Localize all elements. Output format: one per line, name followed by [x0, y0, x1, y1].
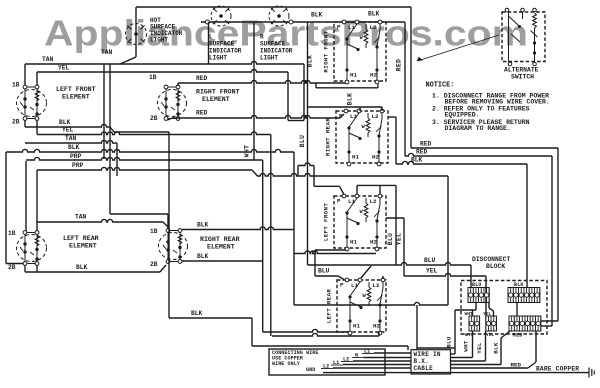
wire RED upper: [411, 148, 558, 321]
wire WHT vertical: [253, 22, 255, 160]
label left rear element: [63, 235, 99, 250]
wire left front H1 drop: [315, 250, 346, 280]
svg-text:BLU: BLU: [299, 135, 306, 147]
wire mid bottom bus: [294, 302, 448, 305]
indicator light DS2 left surface: [211, 6, 231, 26]
wire left rear L2 stub: [382, 276, 384, 279]
label disconnect block: [472, 256, 511, 270]
svg-text:BLK: BLK: [411, 157, 423, 164]
ground symbol: [589, 368, 594, 378]
svg-text:1B: 1B: [8, 230, 16, 237]
wire riser to left front switch: [298, 163, 314, 186]
label left front element: [56, 86, 96, 101]
svg-text:YEL: YEL: [426, 268, 438, 275]
wire YEL down to BX: [451, 331, 486, 361]
svg-text:P: P: [337, 24, 341, 31]
svg-text:RIGHT REAR: RIGHT REAR: [200, 236, 240, 243]
wire BLK L1 feed right rear: [308, 107, 383, 111]
wire RED right front 1B: [178, 80, 378, 87]
svg-text:H2: H2: [370, 72, 377, 79]
svg-text:BLK: BLK: [493, 342, 500, 354]
svg-text:SURFACE: SURFACE: [260, 41, 286, 48]
svg-text:L: L: [209, 34, 213, 41]
svg-text:RED: RED: [396, 59, 403, 71]
svg-text:ELEMENT: ELEMENT: [207, 244, 235, 251]
svg-text:ELEMENT: ELEMENT: [62, 94, 90, 101]
wire BLU strip to YEL strip: [489, 303, 494, 317]
svg-text:LIGHT: LIGHT: [209, 55, 227, 62]
svg-text:YEL: YEL: [58, 65, 70, 72]
terminal strip BLU: [468, 288, 489, 303]
svg-text:2B: 2B: [150, 115, 158, 122]
svg-text:BLOCK: BLOCK: [486, 263, 505, 270]
wire BLU bus: [308, 262, 472, 287]
svg-text:LIGHT: LIGHT: [150, 37, 168, 44]
label L1 b: [331, 360, 343, 366]
wire lights-bus drop to RED: [404, 22, 406, 156]
disconnect block outline dashed: [461, 281, 547, 335]
wire left rear 2B drops: [25, 265, 166, 272]
svg-text:H1: H1: [350, 239, 357, 246]
svg-text:L2: L2: [370, 198, 377, 205]
svg-text:BLK: BLK: [191, 310, 203, 317]
wire YEL right of left front switch: [386, 218, 404, 276]
svg-text:TAN: TAN: [101, 49, 113, 56]
label alternate switch: [504, 67, 539, 81]
wire BLU right of left front switch: [395, 185, 397, 265]
hot light feed wire: [120, 7, 136, 64]
wire left rear H1 wire: [263, 329, 349, 332]
wire YEL bus top: [37, 69, 304, 120]
switch alternate dashed box: [502, 8, 545, 66]
label L1 a: [362, 349, 374, 355]
wire left front H2 drop: [294, 251, 376, 254]
svg-text:BLK: BLK: [59, 119, 71, 126]
label right surface indicator light: [260, 34, 293, 62]
svg-text:LIGHT: LIGHT: [260, 55, 278, 62]
svg-text:LEFT REAR: LEFT REAR: [63, 235, 99, 242]
svg-text:ALTERNATE: ALTERNATE: [504, 67, 539, 74]
svg-text:BLK: BLK: [311, 12, 323, 19]
element right rear: [159, 229, 188, 264]
svg-text:TAN: TAN: [42, 56, 54, 63]
svg-text:H1: H1: [350, 72, 357, 79]
wire TAN rear: [37, 219, 168, 229]
wire vertical v104: [103, 64, 105, 159]
wire BLK down to BX: [451, 331, 511, 365]
svg-text:RED: RED: [196, 75, 208, 82]
svg-text:L2: L2: [372, 113, 379, 120]
terminal strip WHT: [469, 316, 480, 331]
svg-text:LEFT REAR: LEFT REAR: [326, 289, 333, 324]
element left front: [17, 85, 47, 120]
svg-text:CABLE: CABLE: [414, 365, 434, 372]
wire YEL bus: [404, 273, 486, 316]
label left surface indicator light: [209, 34, 242, 62]
svg-text:BLU: BLU: [446, 336, 453, 348]
wire BLK right rear 1B: [182, 227, 294, 230]
svg-text:GND: GND: [306, 367, 315, 373]
svg-text:ELEMENT: ELEMENT: [202, 96, 230, 103]
wire left rear L1 diag feed: [361, 266, 371, 278]
svg-text:RED: RED: [420, 141, 432, 148]
svg-text:L2: L2: [373, 282, 380, 289]
switch left rear infinite switch: [326, 278, 387, 335]
svg-text:H2: H2: [373, 323, 380, 330]
wire bus y176: [258, 173, 448, 305]
wire TAN bus top: [25, 61, 304, 120]
svg-text:BLK: BLK: [307, 55, 314, 67]
svg-text:2B: 2B: [8, 264, 16, 271]
svg-text:BLK: BLK: [76, 264, 88, 271]
terminal strip BLK: [508, 288, 540, 303]
svg-text:P: P: [339, 113, 343, 120]
svg-text:1B: 1B: [12, 82, 20, 89]
label notice block: [426, 82, 550, 133]
wire left rear H2 wire: [272, 332, 379, 336]
switch right front infinite switch: [323, 20, 387, 84]
wire middle vertical v262: [262, 160, 264, 332]
svg-text:YEL: YEL: [476, 342, 483, 354]
wire right rear switch exit: [388, 117, 396, 164]
element left rear: [17, 231, 47, 266]
svg-text:RIGHT FRONT: RIGHT FRONT: [323, 30, 330, 72]
terminal strip YEL: [486, 316, 497, 331]
terminal strip RED: [509, 316, 541, 331]
arrow to alternate switch: [417, 35, 500, 61]
wire RED to BX: [451, 331, 537, 368]
wires connecting box to bx box: [333, 353, 411, 368]
svg-text:H1: H1: [353, 323, 360, 330]
svg-text:RED: RED: [511, 362, 522, 369]
wire BLK strip to RED strip: [516, 303, 518, 317]
switch left front infinite switch: [323, 194, 387, 251]
svg-text:L2: L2: [370, 24, 377, 31]
svg-text:RED: RED: [196, 110, 208, 117]
svg-text:YEL: YEL: [395, 233, 402, 245]
wire BX top feed: [416, 305, 418, 350]
wire RED right front 2B: [168, 114, 345, 120]
svg-text:WHT: WHT: [465, 332, 473, 338]
svg-text:1B: 1B: [150, 228, 158, 235]
svg-text:P: P: [340, 282, 344, 289]
wire left front P feed: [314, 186, 344, 194]
svg-text:YEL: YEL: [483, 311, 491, 317]
svg-text:H2: H2: [370, 239, 377, 246]
wire BLK bottom run: [169, 132, 408, 350]
svg-text:TAN: TAN: [75, 214, 87, 221]
svg-text:BLK: BLK: [368, 11, 380, 18]
indicator light DS1 hot surface: [126, 24, 147, 45]
svg-text:DIAGRAM TO RANGE.: DIAGRAM TO RANGE.: [445, 125, 511, 132]
wire BLU strip bottom to WHT: [455, 303, 476, 355]
svg-text:BARE COPPER: BARE COPPER: [536, 366, 579, 373]
label wire in bx cable: [414, 351, 441, 372]
svg-text:PRP: PRP: [72, 162, 84, 169]
svg-text:LEFT FRONT: LEFT FRONT: [323, 203, 330, 241]
wire BLK bundle 1: [25, 120, 169, 132]
svg-text:INDICATOR: INDICATOR: [209, 48, 242, 55]
svg-text:SURFACE: SURFACE: [209, 41, 235, 48]
svg-text:2B: 2B: [12, 119, 20, 126]
wire BLK bundle 2: [6, 149, 294, 305]
svg-text:RIGHT REAR: RIGHT REAR: [325, 118, 332, 156]
svg-text:WHT: WHT: [463, 340, 470, 352]
wire bare copper: [323, 372, 589, 374]
label L2 a: [341, 357, 353, 363]
svg-text:BLK: BLK: [347, 93, 354, 105]
svg-text:BLU: BLU: [424, 257, 436, 264]
svg-text:1B: 1B: [149, 74, 157, 81]
svg-text:H2: H2: [372, 154, 379, 161]
svg-text:B.X.: B.X.: [414, 358, 430, 365]
label right rear element: [200, 236, 240, 251]
wire h348 to BX: [417, 347, 455, 349]
wire RED lower: [405, 153, 552, 326]
svg-text:EQUIPPED.: EQUIPPED.: [445, 112, 480, 119]
wire BLU to BX: [451, 353, 456, 355]
label L2 b: [321, 364, 333, 370]
svg-text:LEFT FRONT: LEFT FRONT: [56, 86, 96, 93]
svg-text:YEL: YEL: [62, 127, 74, 134]
svg-text:NOTICE:: NOTICE:: [426, 82, 455, 90]
svg-text:BLU: BLU: [472, 282, 482, 288]
switch right rear infinite switch: [325, 109, 389, 166]
svg-text:WIRE ONLY: WIRE ONLY: [272, 361, 300, 367]
wire top bus: [136, 6, 411, 8]
svg-text:BLU: BLU: [387, 233, 394, 245]
svg-text:H1: H1: [352, 154, 359, 161]
wire light text divider: [208, 22, 210, 64]
svg-text:ELEMENT: ELEMENT: [69, 243, 97, 250]
svg-text:SWITCH: SWITCH: [511, 74, 534, 81]
svg-text:BLK: BLK: [197, 253, 209, 260]
wire middle vertical v270: [270, 135, 272, 337]
label connecting wire box: [272, 350, 319, 367]
wire vertical drop right of top bus: [410, 7, 412, 148]
label N: [352, 353, 364, 359]
wire indicator lights bus BLK: [201, 20, 405, 24]
indicator light DS3 right surface: [269, 6, 289, 26]
svg-text:P: P: [337, 198, 341, 205]
wire vertical v110: [110, 64, 168, 229]
svg-text:INDICATOR: INDICATOR: [260, 48, 293, 55]
wire BLK to disconnect: [396, 161, 527, 287]
label hot surface indicator light: [150, 17, 183, 44]
svg-text:PRP: PRP: [70, 153, 82, 160]
element right front: [158, 85, 187, 120]
svg-text:DISCONNECT: DISCONNECT: [472, 256, 511, 263]
svg-text:BLK: BLK: [197, 222, 209, 229]
wire in bx cable box: [411, 350, 451, 374]
wire YEL bundle: [37, 120, 271, 135]
svg-text:YEL: YEL: [486, 332, 494, 338]
svg-text:WIRE IN: WIRE IN: [414, 351, 441, 358]
svg-text:R: R: [260, 34, 264, 41]
svg-text:BLK: BLK: [68, 144, 80, 151]
svg-text:RIGHT FRONT: RIGHT FRONT: [196, 89, 240, 96]
svg-text:TAN: TAN: [65, 135, 77, 142]
svg-text:BEFORE REMOVING WIRE COVER.: BEFORE REMOVING WIRE COVER.: [445, 99, 550, 106]
connecting wire box: [269, 349, 385, 375]
wire left front L1 L2 feed: [357, 185, 396, 194]
label right front element: [196, 89, 240, 104]
svg-text:WHT: WHT: [244, 145, 251, 157]
wire PRP bundle 1: [26, 157, 263, 233]
svg-text:2B: 2B: [150, 261, 158, 268]
wire WHT down to BX: [451, 331, 473, 358]
svg-text:RED: RED: [416, 149, 428, 156]
wire PRP bundle 2: [37, 167, 258, 233]
wire TAN bundle: [25, 140, 117, 176]
wire BLK right rear 2B: [182, 260, 263, 262]
svg-text:BLU: BLU: [318, 268, 330, 275]
svg-text:RED: RED: [513, 333, 523, 339]
wire vertical BLU mid: [307, 22, 309, 265]
svg-text:WHT: WHT: [465, 311, 473, 317]
svg-text:BLK: BLK: [514, 282, 524, 288]
